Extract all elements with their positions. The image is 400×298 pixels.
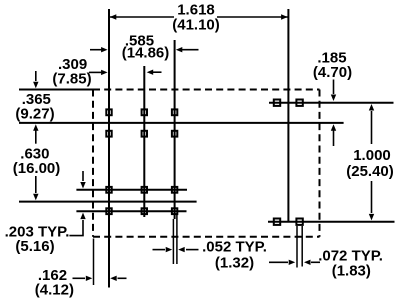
svg-text:1.000: 1.000 (353, 147, 391, 164)
svg-text:(9.27): (9.27) (15, 106, 54, 123)
svg-text:(41.10): (41.10) (172, 17, 220, 34)
svg-text:(1.83): (1.83) (332, 263, 371, 280)
svg-text:(5.16): (5.16) (15, 238, 54, 255)
svg-text:(16.00): (16.00) (13, 160, 61, 177)
svg-text:(25.40): (25.40) (346, 163, 394, 180)
svg-text:.052 TYP.: .052 TYP. (202, 239, 267, 256)
svg-text:(1.32): (1.32) (215, 255, 254, 272)
svg-text:(14.86): (14.86) (122, 45, 170, 62)
svg-text:(4.12): (4.12) (35, 282, 74, 298)
svg-text:(4.70): (4.70) (313, 64, 352, 81)
svg-text:(7.85): (7.85) (52, 71, 91, 88)
